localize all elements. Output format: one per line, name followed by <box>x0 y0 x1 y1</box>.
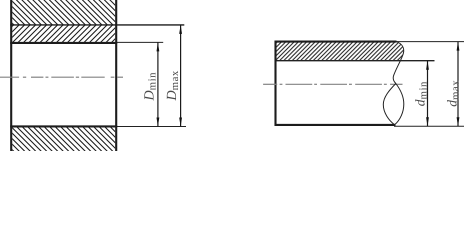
dimension line D_max <box>180 25 182 127</box>
hole upper surface (thick) <box>10 42 117 44</box>
bottom extension line <box>117 126 186 128</box>
svg-text:dmax: dmax <box>444 80 461 107</box>
svg-text:Dmax: Dmax <box>165 70 181 101</box>
svg-text:Dmin: Dmin <box>143 72 159 102</box>
arrow D_min up <box>157 42 160 51</box>
D_max limit line + extension <box>10 24 184 26</box>
left outline of bore piece (thick) <box>10 0 12 151</box>
shaft top surface d_max (thick) <box>275 41 397 43</box>
hole lower surface (thick) <box>10 125 117 127</box>
centerline of hole <box>0 76 123 78</box>
arrow d_max down <box>457 117 460 126</box>
shaft left end (thick) <box>274 41 276 126</box>
hole tolerance zone hatch (forward band) <box>12 25 115 42</box>
shaft bottom surface (thick) <box>275 124 396 126</box>
dimension line d_max <box>457 42 459 127</box>
d_max extension line <box>397 41 464 43</box>
dimension line d_min <box>427 61 429 127</box>
break line upper S-curve <box>393 42 404 84</box>
arrow d_max up <box>457 42 460 51</box>
dimension line D_min <box>157 42 159 126</box>
hole upper material hatch (backslash band) <box>12 0 115 25</box>
shaft tolerance band hatch (clipped by break curve) <box>277 43 404 61</box>
break line lens <box>383 84 404 125</box>
shaft centerline <box>263 83 402 85</box>
right outline of bore piece (thick) <box>115 0 117 151</box>
arrow D_max down <box>179 118 182 127</box>
svg-text:dmin: dmin <box>412 81 429 106</box>
hole lower material hatch <box>12 128 115 152</box>
arrow D_max up <box>179 25 182 34</box>
D_min extension line top <box>117 41 163 43</box>
arrow d_min up <box>426 61 429 70</box>
bottom extension line <box>394 125 464 127</box>
d_min limit line + extension <box>277 60 435 62</box>
arrow d_min down <box>426 117 429 126</box>
arrow D_min down <box>157 118 160 127</box>
